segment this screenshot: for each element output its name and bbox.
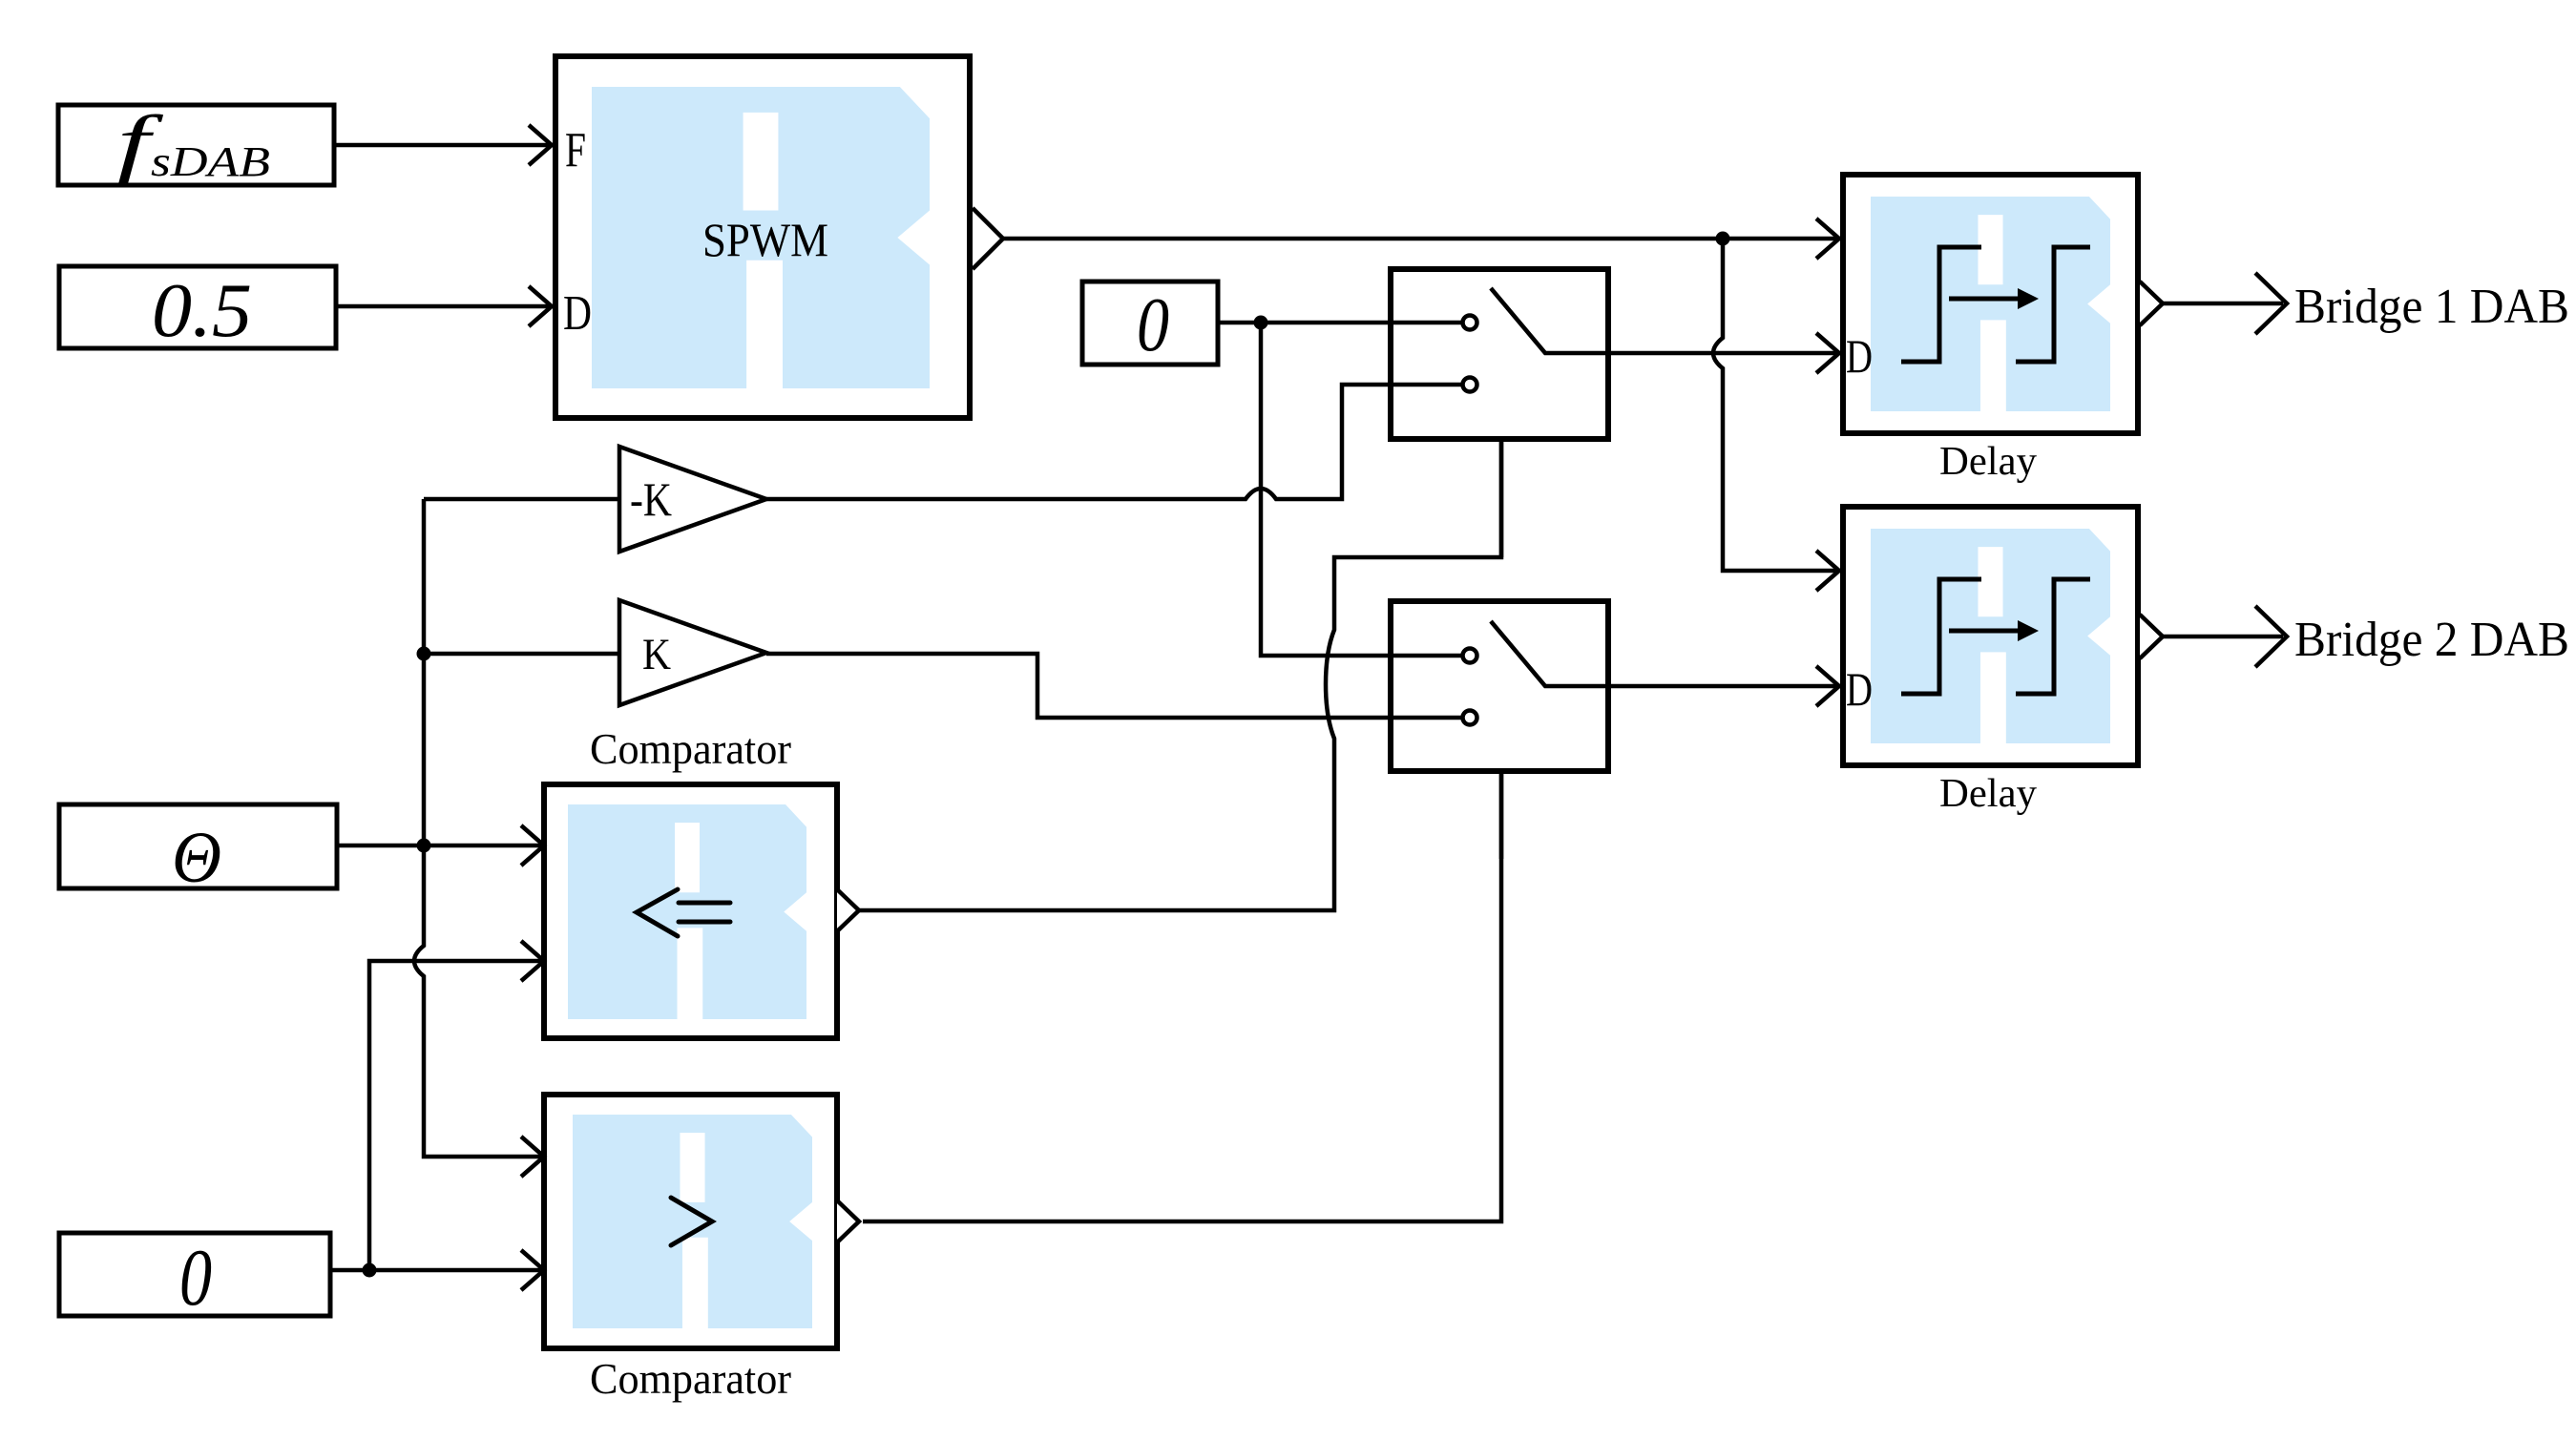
svg-text:Bridge 1 DAB: Bridge 1 DAB (2294, 280, 2569, 334)
svg-text:F: F (565, 123, 586, 177)
svg-text:SPWM: SPWM (702, 213, 828, 266)
svg-text:0.5: 0.5 (152, 267, 252, 353)
svg-text:D: D (1846, 329, 1873, 383)
svg-text:-K: -K (630, 472, 672, 526)
svg-text:Comparator: Comparator (590, 724, 791, 773)
svg-text:0: 0 (1137, 283, 1169, 367)
svg-text:Θ: Θ (172, 818, 221, 898)
svg-text:0: 0 (179, 1233, 212, 1323)
svg-text:Bridge 2 DAB: Bridge 2 DAB (2294, 613, 2569, 667)
svg-text:K: K (642, 630, 671, 679)
svg-text:D: D (1846, 662, 1873, 716)
svg-text:Delay: Delay (1939, 440, 2037, 484)
svg-text:Delay: Delay (1939, 772, 2037, 816)
svg-text:D: D (563, 286, 592, 341)
svg-text:sDAB: sDAB (151, 138, 270, 185)
svg-text:Comparator: Comparator (590, 1354, 791, 1403)
